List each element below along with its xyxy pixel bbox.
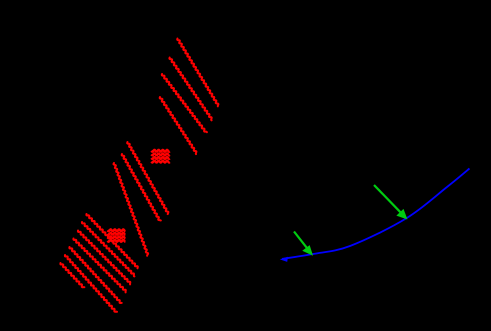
red wavy ray B7 <box>60 263 84 287</box>
red wavy ray B2 <box>82 222 134 276</box>
red wavy ray T4 <box>160 97 197 154</box>
green arrow A2 <box>374 185 407 219</box>
red wavy ray M2 <box>122 154 161 221</box>
red wavy ray M3 <box>114 163 149 256</box>
blue curve (trajectory) <box>282 169 470 259</box>
red wavy ray B6 <box>65 255 117 312</box>
green arrow A1 <box>294 232 312 255</box>
red wavy ray M1 <box>127 142 168 214</box>
wave packet symbol W1 <box>151 150 170 163</box>
red wavy ray B3 <box>78 231 130 285</box>
red wavy ray B5 <box>69 247 121 303</box>
red wavy ray B4 <box>73 239 125 293</box>
red wavy ray T3 <box>162 74 207 132</box>
red wavy ray T1 <box>177 39 218 107</box>
blue curve left arrowhead <box>280 257 288 262</box>
wave packet symbol W2 <box>108 229 126 241</box>
red wavy ray B1 <box>86 214 137 268</box>
red wavy ray T2 <box>169 58 211 121</box>
